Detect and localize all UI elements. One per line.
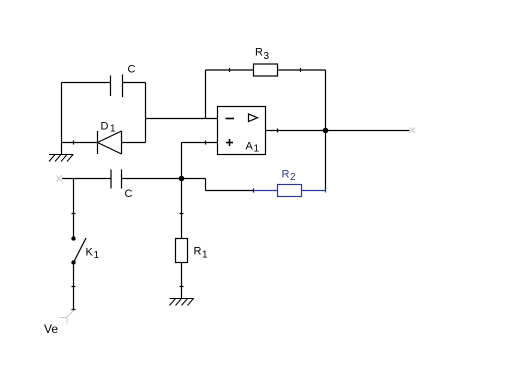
svg-text:1: 1 — [110, 124, 116, 135]
wire: loop output to inverting input (node at y=118.5) — [146, 118, 218, 120]
wire: top loop right vertical — [145, 83, 147, 143]
wire: bottom loop horizontal (right of D1) — [122, 142, 146, 144]
wire: top loop left vertical — [61, 83, 63, 155]
svg-text:2: 2 — [290, 172, 296, 183]
resistor R2 (selected, blue) — [254, 185, 326, 197]
ground (top-left, node of loop) — [49, 155, 74, 162]
svg-text:1: 1 — [254, 144, 260, 155]
label D1 — [101, 121, 117, 135]
wire: junction to R2 step (horizontal) — [182, 178, 206, 180]
terminal: Ve open terminal (light gray hook) — [60, 311, 74, 324]
wire: R1 top vertical — [181, 179, 183, 239]
ground (below R1) — [170, 299, 195, 306]
node: output junction dot — [323, 128, 329, 134]
wire: bottom loop horizontal (left of D1) — [62, 142, 98, 144]
wire: step vertical down to R2 row — [205, 179, 207, 191]
pin tick: Ve wire end — [72, 309, 76, 311]
wire: non-inverting input vertical down to junction — [181, 143, 183, 179]
label K1 — [86, 247, 100, 262]
wire: K1 branch bottom vertical to Ve — [73, 263, 75, 311]
label R1 — [194, 246, 209, 261]
svg-text:K: K — [86, 247, 94, 259]
terminal: input open end (light gray) — [57, 176, 63, 182]
op-amp A1 — [218, 107, 266, 155]
svg-text:A: A — [246, 141, 254, 153]
wire: input row horizontal (right of C2) — [122, 178, 182, 180]
pin tick: R2 left pin end — [253, 189, 255, 193]
svg-text:C: C — [125, 188, 133, 200]
wire: K1 branch top vertical — [73, 179, 75, 239]
svg-text:3: 3 — [264, 51, 270, 62]
svg-text:1: 1 — [202, 250, 208, 261]
pin tick: K1 bottom pin end — [72, 286, 76, 288]
pin tick: op-amp output pin end — [277, 129, 279, 133]
pin tick: R1 top pin end — [180, 213, 184, 215]
wire: R1 bottom vertical — [181, 263, 183, 299]
capacitor C (top) — [111, 75, 123, 98]
svg-text:1: 1 — [94, 250, 100, 261]
terminal: output open end (light gray) — [410, 128, 416, 134]
label A1 — [246, 141, 260, 155]
label R2 (blue) — [282, 169, 297, 184]
svg-text:C: C — [128, 64, 136, 76]
wire: op-amp output — [266, 130, 410, 132]
wire: top loop top horizontal (left of C) — [62, 82, 111, 84]
wire: feedback right vertical (R3 top to output node and down to R2) — [325, 70, 327, 191]
label R3 — [255, 47, 270, 63]
diode D1 — [98, 131, 122, 154]
wire: input row horizontal (left of C2) — [62, 178, 111, 180]
svg-text:R: R — [282, 169, 290, 181]
wire: non-inverting input horizontal — [182, 142, 218, 144]
pin tick: K1 top pin end — [72, 213, 76, 215]
wire: R3 feedback top horizontal — [206, 69, 326, 71]
wire: R2 row horizontal (black part) — [206, 190, 254, 192]
svg-text:D: D — [101, 121, 109, 133]
svg-text:Ve: Ve — [44, 322, 58, 336]
svg-text:R: R — [255, 47, 263, 59]
pin tick: R1 bottom pin end — [180, 286, 184, 288]
resistor R1 — [176, 239, 188, 263]
svg-text:R: R — [194, 246, 202, 258]
wire: feedback left vertical — [205, 70, 207, 119]
node: summing junction dot — [179, 176, 185, 182]
capacitor C (lower) — [111, 170, 122, 189]
pin tick: D1 left pin end — [73, 141, 75, 145]
pin tick: R3 right pin end — [300, 68, 302, 72]
pin tick: op-amp + pin end — [205, 141, 207, 145]
wire: top loop top horizontal (right of C) — [123, 82, 146, 84]
resistor R3 — [254, 64, 278, 76]
switch K1 — [71, 236, 86, 264]
pin tick: R3 left pin end — [229, 68, 231, 72]
